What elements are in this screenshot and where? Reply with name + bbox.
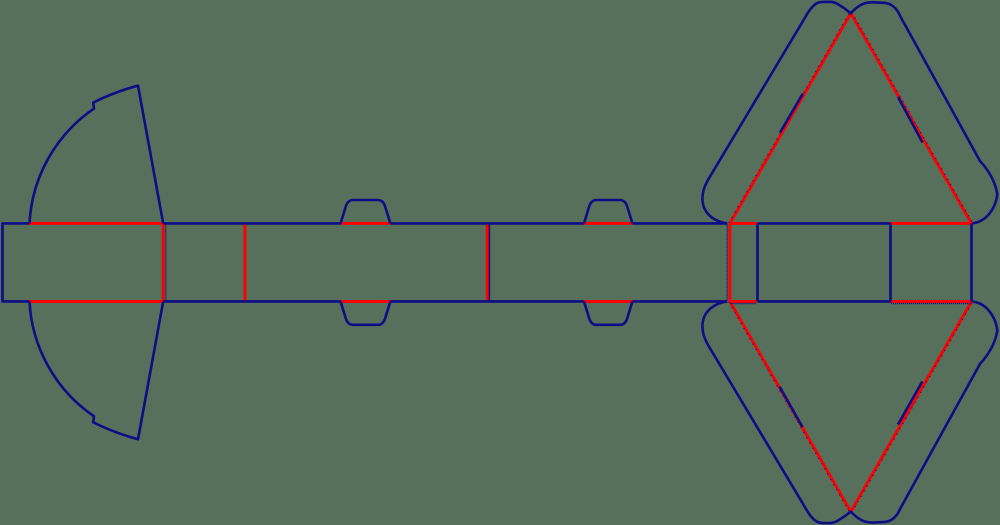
perforation dotted along upper-right diagonal xyxy=(852,12,973,222)
crease diagonal lower-right xyxy=(851,301,972,511)
perforation dotted bottom left segment xyxy=(730,303,756,305)
cut fan flap upper xyxy=(30,86,164,224)
cut strip right edge xyxy=(970,223,973,301)
crease vertical divider x=729.85 xyxy=(728,223,731,301)
crease diagonal upper-left xyxy=(730,13,851,223)
cut lock panel rectangle xyxy=(758,223,891,301)
crease fold right panel top left segment xyxy=(730,222,757,225)
crease fold tab2 bottom xyxy=(584,300,633,303)
cut fan flap lower xyxy=(30,301,164,439)
crease fold tab2 top xyxy=(584,222,633,225)
perforation dotted bottom right segment xyxy=(891,303,971,305)
cut strip bottom edge seg2 xyxy=(391,300,584,303)
cut dash on upper-right diagonal xyxy=(898,97,923,143)
cut tab1 bottom xyxy=(341,301,391,324)
crease fold right panel top right segment xyxy=(891,222,972,225)
perforation dotted x=165.7 xyxy=(165,225,167,301)
crease diagonal upper-right xyxy=(851,13,972,223)
crease fold right panel bottom left segment xyxy=(730,300,757,303)
cut strip top edge seg2 xyxy=(391,222,584,225)
cut strip top edge seg1 xyxy=(163,222,341,225)
crease fold tab1 bottom xyxy=(341,300,391,303)
crease vertical divider x=245 xyxy=(244,224,247,302)
crease fold right panel bottom right segment xyxy=(891,300,972,303)
perforation dotted along lower-right diagonal xyxy=(852,302,973,512)
cut dash on upper-left diagonal xyxy=(780,94,803,133)
cut left glue stub xyxy=(3,223,30,301)
cut diamond outline upper xyxy=(702,2,997,224)
cut strip bottom edge seg3 xyxy=(633,300,728,303)
crease vertical divider x=163.2 xyxy=(162,223,165,301)
perforation dotted along upper-left diagonal xyxy=(729,12,850,222)
cut strip bottom edge seg1 xyxy=(163,300,341,303)
crease fold fan panel bottom xyxy=(30,300,164,303)
crease fold tab1 top xyxy=(341,222,391,225)
cut strip top edge seg3 xyxy=(633,222,728,225)
perforation dotted x=727.2 xyxy=(726,225,728,301)
cut tab2 bottom xyxy=(584,301,632,324)
cut diamond outline lower xyxy=(702,301,997,523)
cut navy underlay at divider x=488.9 xyxy=(488,223,491,301)
crease fold fan panel top xyxy=(30,222,164,225)
cut dash on lower-left diagonal xyxy=(780,387,803,428)
crease vertical divider x=487.2 xyxy=(486,224,489,302)
cut dash on lower-right diagonal xyxy=(898,382,922,425)
crease diagonal lower-left xyxy=(730,301,851,511)
perforation dotted along lower-left diagonal xyxy=(729,302,850,512)
cut tab1 top xyxy=(341,200,391,223)
cut tab2 top xyxy=(584,200,632,223)
